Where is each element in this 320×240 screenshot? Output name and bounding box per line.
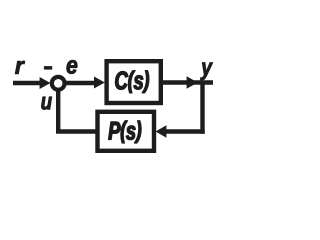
wire r-to-summing-junction (13, 81, 42, 85)
wire P(s)-output left and up to summing junction (58, 89, 95, 132)
summing junction (52, 77, 65, 90)
label e (67, 60, 78, 73)
wire feedback vertical drop at node y (200, 83, 204, 134)
label C(s) (115, 71, 148, 93)
wire C(s)-output to node y (163, 80, 213, 84)
arrowhead into summing junction (40, 77, 51, 89)
label r (15, 61, 25, 74)
arrowhead into P(s) (156, 125, 167, 138)
label y (200, 63, 212, 80)
wire feedback bottom into P(s) (166, 129, 205, 133)
block P(s) (98, 112, 155, 151)
label u (41, 97, 51, 110)
label P(s) (109, 121, 142, 143)
minus sign at summing junction (44, 66, 52, 70)
wire summing-junction-to-C(s) (65, 81, 96, 85)
arrowhead into C(s) (94, 77, 105, 89)
arrowhead at output node y (187, 76, 198, 89)
block C(s) (107, 61, 161, 103)
